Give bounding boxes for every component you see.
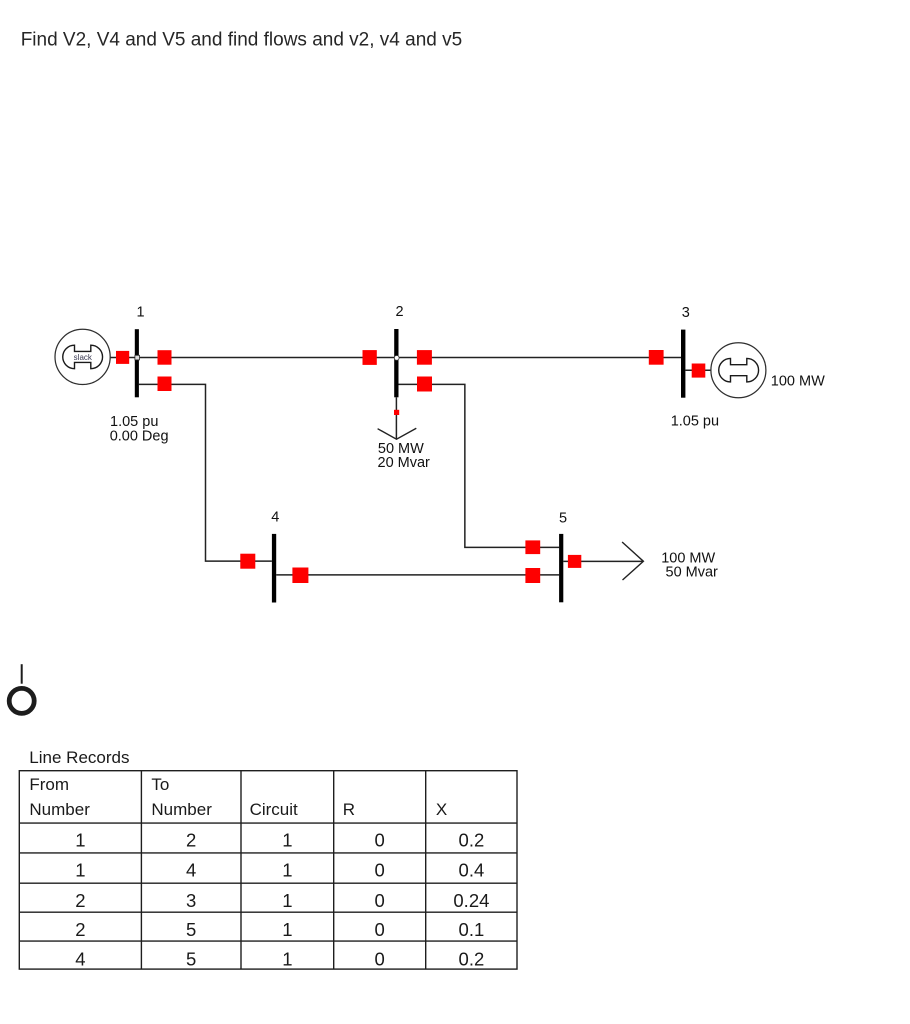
svg-text:Circuit: Circuit (250, 800, 298, 819)
svg-text:4: 4 (271, 509, 279, 525)
wire bus 3 to generator 3 (685, 369, 711, 371)
bus 3 (681, 330, 685, 398)
svg-text:1: 1 (282, 890, 292, 911)
breaker line 2-5 at bus 2 (417, 377, 432, 392)
svg-text:0: 0 (375, 890, 385, 911)
svg-text:From: From (29, 775, 69, 794)
breaker line 1-4 at bus 1 (158, 377, 172, 392)
svg-text:1.05 pu: 1.05 pu (671, 413, 719, 429)
svg-text:1: 1 (282, 859, 292, 880)
svg-text:3: 3 (186, 890, 196, 911)
svg-text:4: 4 (186, 859, 196, 880)
breaker line 1-2 at bus 2 (363, 350, 377, 365)
svg-text:0.2: 0.2 (459, 949, 485, 970)
wire generator1 to bus 1 (110, 357, 135, 359)
bus 1 (135, 329, 139, 397)
wire bus 2 to bus 5 (L-shaped) (399, 384, 560, 547)
svg-text:50 Mvar: 50 Mvar (666, 564, 719, 580)
breaker line 1-2 at bus 1 (158, 350, 172, 365)
svg-text:4: 4 (75, 949, 85, 970)
svg-text:slack: slack (74, 353, 93, 362)
svg-text:1: 1 (75, 829, 85, 850)
wire bus 1 to bus 2 (139, 357, 394, 359)
svg-text:Number: Number (151, 800, 212, 819)
svg-text:R: R (343, 800, 355, 819)
bus 4 (272, 534, 276, 603)
small breaker load at bus 2 (394, 410, 399, 415)
svg-text:3: 3 (682, 305, 690, 321)
svg-text:1: 1 (75, 859, 85, 880)
svg-text:20 Mvar: 20 Mvar (378, 455, 431, 471)
breaker line 2-3 at bus 3 (649, 350, 664, 365)
wire bus 4 to bus 5 (276, 574, 559, 576)
svg-text:0.2: 0.2 (459, 829, 485, 850)
svg-text:0: 0 (375, 859, 385, 880)
svg-text:0: 0 (375, 919, 385, 940)
breaker load at bus 5 (568, 555, 581, 568)
bus 2 (394, 329, 398, 397)
svg-text:0: 0 (375, 829, 385, 850)
svg-text:Number: Number (29, 800, 90, 819)
svg-text:5: 5 (186, 949, 196, 970)
svg-text:2: 2 (396, 304, 404, 320)
wire bus 2 to load (down) (395, 397, 397, 439)
wire bus 2 to bus 3 (399, 357, 682, 359)
breaker gen3-bus3 (692, 364, 706, 378)
stray mark vertical line (21, 664, 23, 684)
svg-text:0: 0 (375, 949, 385, 970)
svg-text:0.00 Deg: 0.00 Deg (110, 428, 169, 444)
breaker line 4-5 at bus 5 (525, 568, 540, 583)
generator G1 rotor (dog-bone) (63, 345, 103, 369)
svg-text:2: 2 (75, 890, 85, 911)
svg-text:To: To (151, 775, 169, 794)
node marker on bus 2 (394, 356, 399, 361)
load 2 arrow chevron (378, 428, 417, 439)
svg-text:0.4: 0.4 (459, 859, 485, 880)
breaker line 4-5 at bus 4 (292, 568, 308, 584)
svg-text:Find V2, V4 and V5 and find fl: Find V2, V4 and V5 and find flows and v2… (21, 30, 463, 51)
breaker gen1-bus1 (116, 351, 129, 364)
wire bus 1 to bus 4 (L-shaped) (139, 384, 272, 561)
stray mark circle (9, 688, 34, 713)
breaker line 2-5 at bus 5 (525, 540, 540, 554)
generator G1 (slack) circle (55, 329, 110, 384)
svg-text:2: 2 (186, 829, 196, 850)
svg-text:0.24: 0.24 (453, 890, 489, 911)
svg-text:1: 1 (137, 304, 145, 320)
generator G3 circle (711, 343, 766, 398)
svg-text:5: 5 (186, 919, 196, 940)
node marker on bus 1 (135, 355, 140, 360)
breaker line 2-3 at bus 2 (417, 350, 432, 365)
svg-text:0.1: 0.1 (459, 919, 485, 940)
svg-text:Line Records: Line Records (29, 748, 129, 767)
generator G3 rotor (dog-bone) (719, 358, 759, 382)
svg-text:1: 1 (282, 919, 292, 940)
svg-text:1: 1 (282, 829, 292, 850)
svg-text:5: 5 (559, 511, 567, 527)
table grid (19, 771, 517, 969)
table header texts (29, 775, 447, 819)
wire bus 5 to load arrow (563, 560, 642, 562)
breaker line 1-4 at bus 4 (240, 554, 255, 569)
svg-text:1: 1 (282, 949, 292, 970)
table data rows (75, 829, 489, 969)
svg-text:2: 2 (75, 919, 85, 940)
svg-text:X: X (436, 800, 447, 819)
svg-text:100 MW: 100 MW (771, 373, 825, 389)
bus 5 (559, 534, 563, 602)
load 5 arrow chevron (622, 542, 643, 580)
